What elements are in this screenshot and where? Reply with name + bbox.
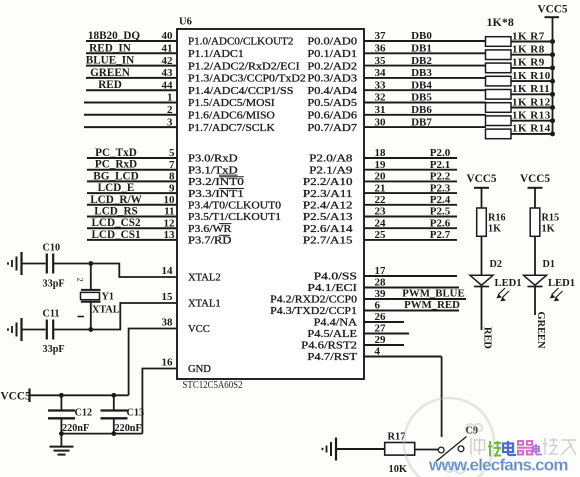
wire net P2.2 pin 20 — [364, 171, 457, 183]
capacitor C13 220nF — [101, 395, 145, 434]
svg-text:P3.5/T1/CLKOUT1: P3.5/T1/CLKOUT1 — [188, 212, 281, 223]
pin label P4.3/TXD2/CCP1 — [270, 306, 357, 317]
svg-text:33: 33 — [375, 79, 387, 91]
wire LED D2 to net RED — [481, 287, 483, 331]
svg-text:1K: 1K — [542, 224, 555, 235]
svg-text:P3.7/RD: P3.7/RD — [188, 236, 232, 247]
svg-text:P1.0/ADC0/CLKOUT2: P1.0/ADC0/CLKOUT2 — [188, 37, 293, 48]
net label GREEN vertical — [535, 312, 546, 349]
pin label P1.2/ADC2/RxD2/ECI — [188, 61, 300, 72]
svg-text:P2.0/A8: P2.0/A8 — [309, 154, 352, 165]
svg-text:P0.7/AD7: P0.7/AD7 — [307, 123, 357, 134]
wire R13 to VCC5 rail, junction — [511, 118, 555, 123]
svg-text:P4.3/TXD2/CCP1: P4.3/TXD2/CCP1 — [270, 306, 357, 317]
svg-text:36: 36 — [375, 43, 387, 55]
pin label P0.2/AD2 — [307, 61, 357, 72]
wire VCC5 vertical rail — [552, 17, 554, 134]
pin label P1.6/ADC6/MISO — [188, 111, 275, 122]
wire net LCD_CS1 pin 13 — [87, 229, 177, 241]
wire net PC_RxD pin 7 — [87, 159, 177, 171]
svg-text:P0.5/AD5: P0.5/AD5 — [307, 98, 357, 109]
svg-text:P2.0: P2.0 — [430, 147, 451, 159]
switch contact left — [438, 447, 444, 453]
svg-text:4: 4 — [375, 346, 381, 358]
wire net P2.7 pin 25 — [364, 229, 457, 241]
svg-text:C11: C11 — [43, 309, 60, 320]
pin label P4.0/SS — [314, 272, 358, 283]
power VCC5 above R15 — [520, 173, 550, 188]
STC12C5A60S2 part value label — [183, 380, 243, 391]
svg-text:12: 12 — [164, 217, 176, 229]
watermark url text — [428, 456, 568, 475]
wire C10 to node XT2 — [53, 263, 91, 265]
svg-text:P2.1: P2.1 — [430, 159, 450, 171]
wire pin 42 left of U6 row P1.2 — [86, 55, 177, 67]
svg-text:P2.1/A9: P2.1/A9 — [309, 165, 352, 176]
svg-text:RED: RED — [98, 79, 122, 91]
wire pin 17 of P4 row 0 — [364, 265, 457, 277]
svg-text:GND: GND — [188, 364, 211, 375]
svg-text:1K R7: 1K R7 — [512, 30, 545, 42]
node junction C13 top — [111, 393, 116, 398]
capacitor C12 220nF — [48, 395, 92, 434]
svg-text:1K: 1K — [488, 224, 501, 235]
pin label P2.5/A13 — [303, 212, 353, 223]
wire net P2.3 pin 21 — [364, 182, 457, 194]
svg-text:DB3: DB3 — [411, 67, 432, 79]
svg-text:RED: RED — [482, 327, 493, 349]
pin label P4.7/RST — [307, 352, 357, 363]
wire R10 to VCC5 rail, junction — [511, 79, 555, 84]
pin label P1.4/ADC4/CCP1/SS — [188, 86, 294, 97]
svg-text:P2.2: P2.2 — [430, 171, 451, 183]
svg-text:C12: C12 — [75, 408, 93, 419]
svg-text:10K: 10K — [389, 464, 407, 475]
wire pin 28 of P4 row 1 — [364, 277, 459, 289]
wire net P2.6 pin 24 — [364, 217, 457, 229]
svg-text:1K*8: 1K*8 — [487, 15, 514, 29]
pin label P4.1/ECI — [307, 283, 357, 294]
wire pin 3 left of U6 row P1.7 — [84, 116, 177, 128]
pin label XTAL2 pin 14 — [162, 265, 221, 284]
pin label P2.4/A12 — [303, 201, 353, 212]
pin label P0.0/AD0 — [307, 37, 357, 48]
svg-text:19: 19 — [375, 159, 387, 171]
pin number 1 of Y1 — [78, 316, 85, 318]
svg-text:35: 35 — [375, 55, 387, 67]
svg-text:1K R10: 1K R10 — [512, 70, 551, 82]
pin label P0.5/AD5 — [307, 98, 357, 109]
svg-text:PC_TxD: PC_TxD — [95, 147, 137, 159]
wire pin 16 GND down to cap rail — [142, 369, 177, 434]
svg-text:PWM_RED: PWM_RED — [404, 299, 460, 311]
svg-text:P4.7/RST: P4.7/RST — [307, 352, 357, 363]
svg-text:P1.2/ADC2/RxD2/ECI: P1.2/ADC2/RxD2/ECI — [188, 61, 300, 72]
svg-text:38: 38 — [162, 317, 174, 329]
pin label P1.1/ADC1 — [188, 49, 244, 60]
svg-text:26: 26 — [375, 311, 387, 323]
wire pin 39 of P4 row 2 — [364, 288, 466, 300]
wire pin 29 of P4 row 6 — [364, 334, 404, 346]
ground left of R17 — [323, 438, 337, 461]
wire pin 44 left of U6 row P1.4 — [86, 79, 177, 91]
svg-text:42: 42 — [162, 55, 174, 67]
wire ground to R17 — [336, 448, 385, 450]
svg-text:13: 13 — [164, 229, 176, 241]
wire R7 to VCC5 rail, junction — [511, 39, 555, 44]
wire VCC5 to R16 — [481, 188, 483, 208]
svg-text:1K R11: 1K R11 — [512, 83, 550, 95]
pin label P1.0/ADC0/CLKOUT2 — [188, 37, 293, 48]
switch lever — [436, 437, 467, 462]
wire R15 to LED D1 — [534, 236, 536, 275]
svg-text:DB4: DB4 — [411, 79, 432, 91]
svg-text:P4.6/RST2: P4.6/RST2 — [301, 341, 357, 352]
svg-text:2: 2 — [167, 104, 173, 116]
svg-text:P4.2/RXD2/CCP0: P4.2/RXD2/CCP0 — [270, 295, 357, 306]
ground below C12 — [50, 434, 74, 455]
wire net DB7 pin 30 — [364, 116, 486, 128]
svg-text:LCD_RS: LCD_RS — [94, 206, 138, 218]
svg-text:28: 28 — [375, 277, 387, 289]
wire net P2.0 pin 18 — [364, 147, 457, 159]
svg-text:33pF: 33pF — [43, 279, 65, 290]
wire LED D1 to net GREEN — [534, 287, 536, 316]
pin label P3.1/TxD — [188, 165, 238, 176]
svg-text:P2.6: P2.6 — [430, 217, 451, 229]
svg-text:PC_RxD: PC_RxD — [95, 159, 137, 171]
wire pin 41 left of U6 row P1.1 — [86, 42, 177, 54]
svg-text:27: 27 — [375, 323, 387, 335]
svg-text:3: 3 — [167, 116, 173, 128]
svg-text:P0.0/AD0: P0.0/AD0 — [307, 37, 357, 48]
svg-text:LCD_CS2: LCD_CS2 — [91, 217, 141, 229]
pin label P1.3/ADC3/CCP0/TxD2 — [188, 74, 306, 85]
svg-text:P3.3/INT1: P3.3/INT1 — [188, 189, 244, 200]
pin label GND pin 16 — [162, 357, 212, 376]
svg-text:LCD_R/W: LCD_R/W — [90, 194, 142, 206]
wire pin 6 of P4 row 3 — [364, 300, 459, 312]
resistor R17 10K — [385, 432, 415, 476]
svg-text:P3.4/T0/CLKOUT0: P3.4/T0/CLKOUT0 — [188, 201, 281, 212]
svg-text:7: 7 — [169, 159, 175, 171]
svg-text:P1.6/ADC6/MISO: P1.6/ADC6/MISO — [188, 111, 275, 122]
LED D1 — [524, 259, 576, 301]
svg-text:1K R13: 1K R13 — [512, 110, 551, 122]
wire net DB2 pin 35 — [364, 55, 486, 67]
svg-text:P2.2/A10: P2.2/A10 — [303, 177, 353, 188]
node junction C12 top — [59, 393, 64, 398]
svg-text:P0.6/AD6: P0.6/AD6 — [307, 111, 357, 122]
svg-text:P4.0/SS: P4.0/SS — [314, 272, 358, 283]
LED D2 — [470, 259, 522, 301]
wire net LCD_E pin 9 — [87, 182, 177, 194]
svg-text:18: 18 — [375, 147, 387, 159]
svg-text:P2.4: P2.4 — [430, 194, 451, 206]
capacitor C10 33pF — [43, 243, 65, 290]
svg-text:P0.4/AD4: P0.4/AD4 — [307, 86, 357, 97]
wire pin 40 left of U6 row P1.0 — [86, 30, 177, 42]
wire pin 15 to crystal node — [91, 303, 177, 330]
svg-text:8: 8 — [169, 171, 175, 183]
wire node XT2 down to crystal — [90, 264, 92, 290]
wire ground to C10 — [22, 263, 46, 265]
svg-text:18B20_DQ: 18B20_DQ — [88, 30, 141, 42]
svg-text:VCC5: VCC5 — [1, 391, 31, 403]
svg-text:P3.2/INT0: P3.2/INT0 — [188, 177, 244, 188]
pin label P3.4/T0/CLKOUT0 — [188, 201, 281, 212]
svg-text:P2.3: P2.3 — [430, 182, 451, 194]
pin label P3.6/WR — [188, 224, 232, 235]
pin label P2.7/A15 — [303, 236, 353, 247]
pin label P0.6/AD6 — [307, 111, 357, 122]
svg-text:23: 23 — [375, 206, 387, 218]
svg-text:39: 39 — [375, 288, 387, 300]
svg-text:DB0: DB0 — [411, 30, 432, 42]
svg-text:220nF: 220nF — [115, 423, 142, 434]
svg-text:21: 21 — [375, 182, 386, 194]
wire C11 to node XT1 — [53, 329, 91, 331]
wire net DB3 pin 34 — [364, 67, 486, 79]
svg-text:U6: U6 — [179, 17, 192, 28]
svg-text:P2.5: P2.5 — [430, 206, 451, 218]
pin label P0.3/AD3 — [307, 74, 357, 85]
svg-text:DB1: DB1 — [411, 43, 432, 55]
svg-text:PWM_BLUE: PWM_BLUE — [402, 288, 464, 300]
node junction XT1 — [88, 327, 93, 332]
svg-text:30: 30 — [375, 116, 387, 128]
svg-text:P4.1/ECI: P4.1/ECI — [307, 283, 357, 294]
svg-text:P1.5/ADC5/MOSI: P1.5/ADC5/MOSI — [188, 98, 275, 109]
svg-text:24: 24 — [375, 217, 387, 229]
power VCC5 above R16 — [466, 173, 496, 188]
wire pin 27 of P4 row 5 — [364, 323, 409, 335]
wire R8 to VCC5 rail, junction — [511, 52, 555, 57]
svg-text:P2.5/A13: P2.5/A13 — [303, 212, 353, 223]
wire net LCD_RS pin 11 — [87, 206, 177, 218]
svg-text:9: 9 — [169, 182, 175, 194]
svg-text:33pF: 33pF — [43, 344, 65, 355]
svg-text:D1: D1 — [543, 259, 555, 270]
svg-text:RED_IN: RED_IN — [89, 42, 131, 54]
svg-text:R17: R17 — [388, 432, 406, 443]
wire crystal down to node XT1 — [90, 302, 92, 330]
wire R17 to switch — [415, 449, 439, 451]
pin label P2.6/A14 — [303, 224, 353, 235]
svg-text:5: 5 — [169, 147, 175, 159]
svg-text:32: 32 — [375, 92, 387, 104]
pin label P2.3/A11 — [303, 189, 353, 200]
wire pin 26 of P4 row 4 — [364, 311, 404, 323]
pin label P3.3/INT1 — [188, 189, 244, 200]
svg-text:LED1: LED1 — [495, 278, 522, 289]
svg-text:11: 11 — [164, 206, 174, 218]
wire pin 14 to crystal node — [91, 264, 177, 278]
resistor R12 1K — [486, 96, 551, 112]
resistor R9 1K — [486, 57, 545, 73]
svg-text:DB7: DB7 — [411, 116, 432, 128]
svg-text:P0.2/AD2: P0.2/AD2 — [307, 61, 357, 72]
svg-text:1: 1 — [167, 92, 173, 104]
svg-text:LCD_E: LCD_E — [98, 182, 135, 194]
pin label P3.7/RD — [188, 235, 232, 246]
svg-text:LED1: LED1 — [548, 278, 575, 289]
svg-text:R15: R15 — [542, 213, 560, 224]
pin label P2.0/A8 — [309, 154, 352, 165]
wire net DB6 pin 31 — [364, 104, 486, 116]
svg-text:P3.6/WR: P3.6/WR — [188, 224, 232, 235]
wire pin 4 RST down to switch — [441, 357, 443, 438]
wire net PC_TxD pin 5 — [87, 147, 177, 159]
pin label P3.5/T1/CLKOUT1 — [188, 212, 281, 223]
svg-text:VCC5: VCC5 — [466, 173, 496, 185]
pin label P0.7/AD7 — [307, 123, 357, 134]
svg-text:20: 20 — [375, 171, 387, 183]
wire net DB0 pin 37 — [364, 30, 486, 42]
wire R9 to VCC5 rail, junction — [511, 65, 555, 70]
svg-text:P1.1/ADC1: P1.1/ADC1 — [188, 49, 244, 60]
wire net LCD_R/W pin 10 — [87, 194, 177, 206]
svg-text:37: 37 — [375, 30, 387, 42]
node junction C12 bottom — [59, 431, 64, 436]
watermark stamp circle — [404, 398, 494, 477]
power port VCC5 left — [1, 389, 31, 403]
resistor R10 1K — [486, 70, 551, 86]
resistor R16 1K — [477, 208, 506, 236]
svg-text:2: 2 — [76, 278, 86, 282]
net label PWM_BLUE — [402, 288, 464, 300]
svg-text:P0.1/AD1: P0.1/AD1 — [307, 49, 357, 60]
resistor R8 1K — [486, 44, 545, 60]
svg-text:1K R12: 1K R12 — [512, 96, 551, 108]
wire net BG_LCD pin 8 — [87, 170, 177, 182]
svg-text:DB5: DB5 — [411, 92, 432, 104]
svg-text:10: 10 — [164, 194, 176, 206]
wire VCC5 rail — [30, 394, 129, 396]
svg-text:DB2: DB2 — [411, 55, 432, 67]
wire R12 to VCC5 rail, junction — [511, 105, 555, 110]
svg-text:P1.3/ADC3/CCP0/TxD2: P1.3/ADC3/CCP0/TxD2 — [188, 74, 306, 85]
svg-text:XTAL: XTAL — [92, 305, 120, 316]
node junction C13 bottom — [111, 431, 116, 436]
pin label P3.0/RxD — [188, 154, 238, 165]
svg-text:1K R8: 1K R8 — [512, 44, 545, 56]
pin label P1.7/ADC7/SCLK — [188, 123, 275, 134]
pin label P2.1/A9 — [309, 165, 352, 176]
svg-text:GREEN: GREEN — [90, 67, 130, 79]
power VCC5 top right — [537, 4, 567, 18]
pin label VCC pin 38 — [162, 317, 210, 336]
svg-text:C10: C10 — [43, 243, 61, 254]
wire bottom cap rail to GND pin line — [61, 433, 142, 435]
pin label P4.2/RXD2/CCP0 — [270, 295, 357, 306]
svg-text:P2.4/A12: P2.4/A12 — [303, 201, 353, 212]
svg-text:P2.7/A15: P2.7/A15 — [303, 236, 353, 247]
svg-text:P4.4/NA: P4.4/NA — [314, 318, 358, 329]
resistor R11 1K — [486, 83, 551, 99]
svg-text:P1.7/ADC7/SCLK: P1.7/ADC7/SCLK — [188, 123, 275, 134]
wire pin 1 left of U6 row P1.5 — [84, 92, 177, 104]
wire VCC5 to R15 — [534, 188, 536, 208]
pin label P4.5/ALE — [307, 329, 357, 340]
wire pin 4 of P4 row 7 — [364, 346, 442, 358]
svg-text:P0.3/AD3: P0.3/AD3 — [307, 74, 357, 85]
wire net LCD_CS2 pin 12 — [87, 217, 177, 229]
svg-text:P3.0/RxD: P3.0/RxD — [188, 154, 238, 165]
svg-text:BG_LCD: BG_LCD — [93, 170, 138, 182]
svg-text:C13: C13 — [127, 408, 145, 419]
resistor R14 1K — [486, 123, 551, 139]
wire net DB4 pin 33 — [364, 79, 486, 91]
svg-text:XTAL2: XTAL2 — [188, 273, 221, 284]
watermark colored characters — [488, 441, 542, 457]
resistor R13 1K — [486, 110, 551, 126]
wire pin 38 VCC down to decoupling rail — [129, 329, 177, 396]
pin label P0.1/AD1 — [307, 49, 357, 60]
svg-text:Y1: Y1 — [102, 291, 114, 302]
svg-text:31: 31 — [375, 104, 386, 116]
wire R16 to LED D2 — [481, 236, 483, 275]
svg-text:VCC5: VCC5 — [537, 4, 567, 16]
svg-text:LCD_CS1: LCD_CS1 — [91, 229, 141, 241]
pin label XTAL1 pin 15 — [162, 291, 221, 310]
svg-text:P2.7: P2.7 — [430, 229, 451, 241]
crystal Y1 XTAL — [81, 290, 120, 316]
svg-text:VCC: VCC — [188, 324, 210, 335]
svg-text:1K R9: 1K R9 — [512, 57, 545, 69]
svg-text:41: 41 — [162, 43, 173, 55]
wire pin 43 left of U6 row P1.3 — [86, 67, 177, 79]
node junction XT2 — [88, 261, 93, 266]
U6 reference designator label — [179, 17, 192, 28]
net label RED vertical — [482, 327, 493, 349]
pin label P1.5/ADC5/MOSI — [188, 98, 275, 109]
svg-text:40: 40 — [162, 30, 174, 42]
wire pin 2 left of U6 row P1.6 — [84, 104, 177, 116]
svg-text:www.elecfans.com: www.elecfans.com — [428, 456, 568, 475]
svg-text:44: 44 — [162, 79, 174, 91]
svg-text:VCC5: VCC5 — [520, 173, 550, 185]
svg-text:1K R14: 1K R14 — [512, 123, 551, 135]
svg-text:25: 25 — [375, 229, 387, 241]
resistor R7 1K — [486, 30, 545, 46]
svg-text:6: 6 — [375, 300, 381, 312]
pin label P4.4/NA — [314, 318, 358, 329]
svg-text:16: 16 — [162, 357, 174, 369]
net label PWM_RED — [404, 299, 460, 311]
watermark outlined characters row — [471, 438, 576, 455]
pin label P3.2/INT0 — [188, 177, 244, 188]
svg-text:D2: D2 — [490, 259, 502, 270]
svg-text:P4.5/ALE: P4.5/ALE — [307, 329, 357, 340]
svg-text:17: 17 — [375, 265, 387, 277]
capacitor C11 33pF — [43, 309, 65, 356]
wire net P2.4 pin 22 — [364, 194, 457, 206]
wire net P2.5 pin 23 — [364, 206, 457, 218]
svg-text:STC12C5A60S2: STC12C5A60S2 — [183, 380, 243, 391]
svg-text:XTAL1: XTAL1 — [188, 299, 221, 310]
svg-text:GREEN: GREEN — [535, 312, 546, 349]
pin label P0.4/AD4 — [307, 86, 357, 97]
wire net DB5 pin 32 — [364, 92, 486, 104]
wire net DB1 pin 36 — [364, 43, 486, 55]
svg-text:P1.4/ADC4/CCP1/SS: P1.4/ADC4/CCP1/SS — [188, 86, 294, 97]
pin number 2 of Y1 — [76, 278, 86, 282]
svg-text:P2.6/A14: P2.6/A14 — [303, 224, 353, 235]
svg-text:15: 15 — [162, 291, 174, 303]
wire R14 to VCC5 rail, junction — [511, 131, 555, 136]
ground for C11 — [8, 318, 22, 341]
